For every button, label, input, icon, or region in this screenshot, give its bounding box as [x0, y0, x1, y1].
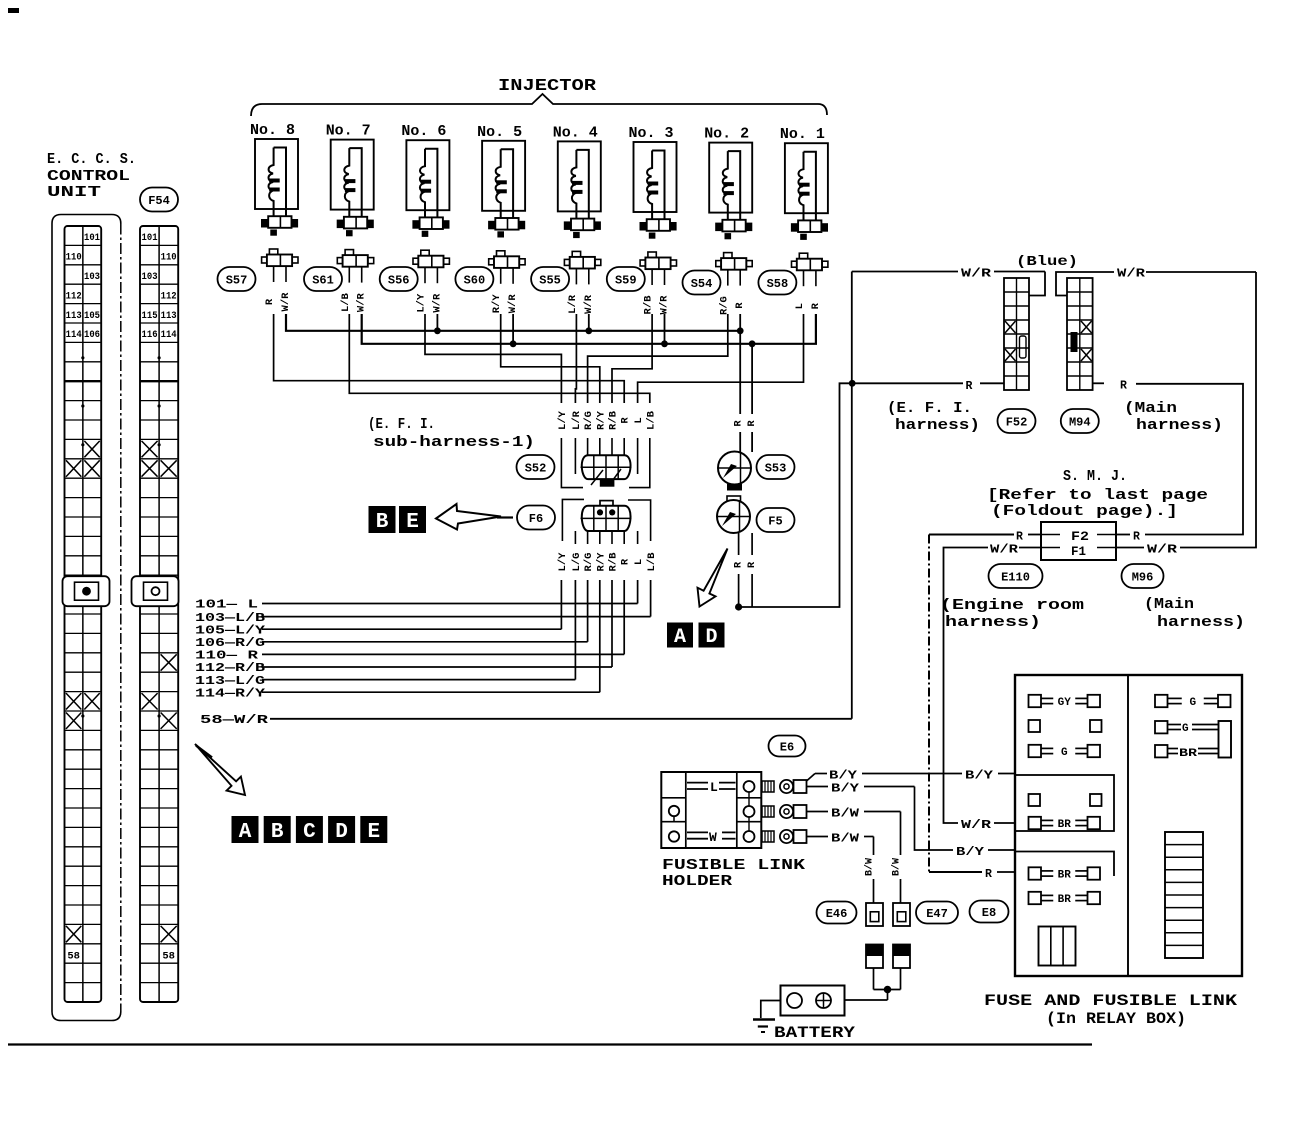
- svg-text:114: 114: [66, 330, 82, 341]
- injector No. 6: [401, 123, 449, 312]
- injector No. 6 harness connector: [412, 220, 419, 229]
- svg-text:E6: E6: [780, 740, 794, 754]
- fuse GY: [1029, 695, 1101, 709]
- svg-text:R: R: [746, 561, 758, 568]
- wire L/Y from injector No.6 to sub-harness bundle: [425, 314, 561, 403]
- wire B/Y (second): [807, 786, 829, 788]
- svg-text:W/R: W/R: [583, 294, 595, 314]
- connector S52 (E.F.I. sub-harness-1): [581, 455, 632, 486]
- svg-text:116: 116: [142, 330, 158, 341]
- svg-text:L/Y: L/Y: [557, 552, 569, 572]
- wire wrap F6 left: [562, 499, 584, 541]
- svg-text:58: 58: [162, 950, 175, 962]
- wire out of F6: [599, 531, 601, 544]
- svg-text:W/R: W/R: [356, 292, 368, 312]
- inner box 2 bracket: [1015, 852, 1114, 877]
- terminal stub row y=786.5: [762, 781, 774, 792]
- wire L/Y wrap around S52: [561, 438, 583, 488]
- svg-text:L/R: L/R: [571, 410, 583, 430]
- connector label oval S61: [304, 267, 342, 291]
- svg-text:R: R: [1120, 380, 1127, 393]
- ECU outline box: [52, 215, 121, 1021]
- svg-text:F2: F2: [1071, 530, 1089, 544]
- svg-text:58: 58: [67, 950, 80, 962]
- arrow from ECU: [195, 744, 245, 795]
- svg-text:S56: S56: [388, 273, 410, 287]
- svg-text:L: L: [633, 559, 645, 565]
- wire into S52 left end: [574, 438, 576, 474]
- svg-text:B/Y: B/Y: [956, 846, 984, 859]
- svg-text:101: 101: [142, 233, 158, 244]
- connector F6: [581, 501, 632, 531]
- svg-text:58—W/R: 58—W/R: [200, 714, 268, 727]
- wire R SMJ left to fuse box: [1028, 534, 1041, 536]
- fuse BR to busbar: [1155, 745, 1219, 760]
- injector No. 5: [477, 124, 525, 313]
- wire R to junction: [738, 574, 740, 607]
- svg-text:B/Y: B/Y: [829, 770, 857, 783]
- injector No. 4 sub-harness connector S: [572, 251, 580, 257]
- wire L/B wrap around S52: [629, 438, 650, 488]
- svg-text:113: 113: [66, 311, 82, 322]
- svg-text:105: 105: [84, 311, 100, 322]
- fuse BR: [1029, 892, 1101, 906]
- injector No. 6 sub-harness connector S: [421, 250, 429, 256]
- fuse G to busbar: [1155, 721, 1219, 735]
- svg-text:B/W: B/W: [831, 808, 859, 821]
- relay: [1039, 927, 1076, 966]
- svg-text:R/Y: R/Y: [491, 294, 503, 314]
- svg-text:113: 113: [161, 311, 177, 322]
- injector No. 7 harness connector: [337, 220, 344, 229]
- svg-text:105—L/Y: 105—L/Y: [195, 624, 265, 637]
- svg-text:S. M. J.: S. M. J.: [1063, 468, 1127, 485]
- svg-text:S61: S61: [312, 273, 334, 287]
- svg-text:115: 115: [142, 311, 158, 322]
- connector label oval M94: [1061, 409, 1099, 433]
- wire to battery junction: [873, 968, 875, 990]
- view marker E: [360, 816, 387, 844]
- svg-text:BR: BR: [1058, 894, 1072, 906]
- svg-text:S57: S57: [226, 273, 248, 287]
- svg-text:110— R: 110— R: [195, 650, 258, 663]
- fuse G (right): [1155, 695, 1231, 709]
- wire W/R injector 5 to bus: [512, 314, 514, 344]
- svg-text:L/Y: L/Y: [416, 293, 428, 313]
- svg-text:B: B: [376, 511, 389, 534]
- svg-text:E110: E110: [1001, 570, 1030, 584]
- injector group bracket: [251, 94, 827, 116]
- wire B/Y (top) to fuse box: [807, 774, 816, 782]
- svg-text:R: R: [985, 868, 992, 881]
- svg-text:L/B: L/B: [645, 410, 657, 430]
- svg-text:B/W: B/W: [891, 858, 903, 876]
- svg-text:(In RELAY BOX): (In RELAY BOX): [1046, 1010, 1186, 1028]
- wire R/G from injector No.2 to sub-harness bundle: [588, 314, 728, 403]
- injector No. 4: [553, 124, 601, 313]
- wire W/R pin58 riser: [851, 272, 853, 719]
- svg-text:F5: F5: [768, 514, 782, 528]
- svg-text:BR: BR: [1179, 748, 1198, 760]
- fuse and fusible link box (relay box): [1015, 675, 1242, 976]
- svg-text:A: A: [674, 626, 686, 649]
- svg-text:G: G: [1061, 747, 1068, 759]
- svg-text:harness): harness): [945, 614, 1041, 631]
- wire ECU pin 113 (L/G): [574, 580, 576, 680]
- svg-text:INJECTOR: INJECTOR: [498, 77, 597, 96]
- fusible link E47: [893, 903, 910, 926]
- svg-text:110: 110: [66, 253, 82, 264]
- svg-text:UNIT: UNIT: [47, 184, 101, 201]
- connector label oval S54: [683, 271, 721, 295]
- wire W/R to M94: [1056, 272, 1114, 296]
- svg-text:(Main: (Main: [1144, 596, 1194, 613]
- wire ECU pin 110 (R): [623, 580, 625, 654]
- svg-text:106: 106: [84, 330, 100, 341]
- svg-text:112: 112: [66, 291, 82, 302]
- wire W/R to F52: [852, 271, 958, 273]
- svg-text:No. 8: No. 8: [250, 122, 295, 139]
- svg-text:FUSIBLE LINK: FUSIBLE LINK: [662, 857, 805, 874]
- wire W/R injector 3 to bus: [664, 314, 666, 344]
- svg-text:E. C. C. S.: E. C. C. S.: [47, 151, 136, 168]
- svg-text:R: R: [966, 380, 973, 393]
- relay box divider: [1127, 675, 1129, 976]
- junction: [510, 340, 517, 347]
- svg-text:R/G: R/G: [583, 411, 595, 430]
- injector No. 8 sub-harness connector S: [269, 249, 277, 255]
- wire into S52: [587, 438, 589, 457]
- injector No. 8: [250, 122, 298, 311]
- svg-text:BR: BR: [1058, 819, 1072, 831]
- wire R/B from injector No.3 to sub-harness bundle: [612, 314, 652, 403]
- svg-text:B/Y: B/Y: [965, 770, 993, 783]
- svg-text:(Engine room: (Engine room: [940, 597, 1084, 614]
- wire ECU pin 112 (R/B): [611, 580, 613, 667]
- svg-text:S60: S60: [464, 273, 486, 287]
- svg-text:103: 103: [84, 272, 100, 283]
- svg-text:W/R: W/R: [507, 294, 519, 314]
- wire ECU pin 101 (L): [637, 580, 639, 604]
- wire L/R from injector No.4 to sub-harness bundle: [575, 314, 576, 403]
- connector label oval E46: [817, 902, 857, 924]
- svg-text:harness): harness): [895, 418, 980, 434]
- svg-text:(Foldout page).]: (Foldout page).]: [991, 503, 1178, 520]
- svg-text:R: R: [734, 302, 746, 309]
- connector label oval S59: [607, 267, 645, 291]
- svg-text:113—L/G: 113—L/G: [195, 675, 265, 688]
- wire ECU pin 103 (L/B): [650, 580, 652, 617]
- svg-text:L/B: L/B: [340, 292, 352, 312]
- connector S.M.J. F2/F1: [1041, 522, 1116, 560]
- svg-text:E46: E46: [826, 907, 848, 921]
- svg-text:R/Y: R/Y: [595, 410, 607, 430]
- svg-text:110: 110: [161, 253, 177, 264]
- spare terminal: [1029, 794, 1041, 806]
- svg-text:M96: M96: [1132, 570, 1154, 584]
- svg-text:W/R: W/R: [431, 293, 443, 313]
- fusible link holder: [661, 772, 761, 848]
- connector label oval S56: [380, 267, 418, 291]
- svg-text:L: L: [794, 303, 806, 309]
- svg-text:No. 6: No. 6: [401, 123, 446, 140]
- connector below E46: [866, 945, 883, 957]
- svg-text:(Blue): (Blue): [1016, 254, 1078, 270]
- svg-text:W/R: W/R: [659, 295, 671, 315]
- svg-text:W/R: W/R: [1147, 544, 1177, 557]
- svg-text:E: E: [406, 511, 419, 534]
- svg-text:No. 4: No. 4: [553, 124, 598, 141]
- ECU connector strip (right, F54): [132, 226, 179, 1002]
- junction R: [735, 603, 742, 610]
- wire ECU pin 106 (R/G): [587, 580, 589, 642]
- svg-text:R/G: R/G: [583, 553, 595, 572]
- wire R from bus to S53 (right pin): [751, 344, 753, 414]
- wire into S52 right end: [637, 438, 639, 474]
- svg-text:G: G: [1189, 697, 1196, 709]
- connector label oval S58: [758, 271, 796, 295]
- svg-text:L: L: [710, 780, 718, 795]
- connector label oval M96: [1122, 564, 1164, 588]
- svg-text:S58: S58: [767, 277, 789, 291]
- wire W/R SMJ left to fuse box: [1019, 547, 1041, 549]
- svg-text:W/R: W/R: [961, 268, 991, 281]
- wire R supply bus (injectors 7,5,3,1): [362, 314, 816, 344]
- view marker D: [699, 623, 725, 650]
- wire R below F5: [751, 533, 753, 555]
- spare terminal: [1090, 794, 1102, 806]
- svg-text:R/B: R/B: [608, 410, 620, 430]
- svg-text:sub-harness-1): sub-harness-1): [373, 435, 535, 451]
- svg-text:E: E: [367, 821, 380, 844]
- wire into S52: [599, 438, 601, 457]
- svg-text:M94: M94: [1069, 415, 1091, 429]
- wire out of F6: [623, 531, 625, 544]
- svg-text:No. 5: No. 5: [477, 124, 522, 141]
- connector F52 (blue): [1004, 278, 1029, 390]
- svg-text:L/R: L/R: [567, 294, 579, 314]
- wire ECU pin 105 (L/Y): [560, 580, 562, 629]
- svg-text:L/G: L/G: [571, 553, 583, 572]
- connector label oval E47: [916, 902, 958, 924]
- wire W/R injector 4 to bus: [588, 314, 590, 331]
- arrow near F5: [698, 549, 728, 607]
- svg-text:114: 114: [161, 330, 177, 341]
- connector label oval S52: [517, 455, 555, 479]
- svg-text:W: W: [709, 830, 717, 845]
- svg-text:R: R: [620, 417, 632, 424]
- svg-text:103—L/B: 103—L/B: [195, 612, 265, 625]
- junction: [661, 340, 668, 347]
- injector No. 5 sub-harness connector S: [497, 251, 505, 257]
- injector No. 3: [629, 125, 677, 314]
- connector label oval F52: [998, 409, 1036, 433]
- injector No. 3 sub-harness connector S: [648, 252, 656, 258]
- svg-text:R: R: [810, 302, 822, 309]
- svg-text:B/W: B/W: [864, 858, 876, 876]
- junction: [585, 327, 592, 334]
- bottom separator line: [8, 1043, 1092, 1045]
- svg-text:A: A: [239, 821, 252, 844]
- spare terminal: [1090, 720, 1102, 732]
- connector label oval F54: [140, 188, 178, 212]
- wire wrap F6 right: [628, 500, 651, 541]
- svg-text:106—R/G: 106—R/G: [195, 637, 265, 650]
- junction battery feed: [884, 986, 892, 994]
- injector No. 2: [704, 126, 752, 315]
- svg-text:E47: E47: [926, 907, 948, 921]
- wire R from bus to S53 (left pin): [739, 314, 741, 331]
- svg-text:GY: GY: [1058, 697, 1072, 709]
- svg-text:No. 1: No. 1: [780, 126, 825, 143]
- injector No. 7 sub-harness connector S: [345, 250, 353, 256]
- svg-text:F54: F54: [148, 194, 170, 208]
- svg-text:harness): harness): [1136, 418, 1223, 434]
- wire R below F5: [738, 533, 740, 555]
- wire R from injector No.8 to sub-harness bundle: [274, 314, 625, 403]
- svg-text:B/Y: B/Y: [831, 783, 859, 796]
- view marker D: [328, 816, 355, 844]
- svg-text:G: G: [1182, 723, 1189, 735]
- svg-text:E8: E8: [982, 906, 996, 920]
- svg-text:R: R: [264, 298, 276, 305]
- svg-text:(Main: (Main: [1124, 401, 1177, 417]
- svg-text:W/R: W/R: [1117, 268, 1145, 281]
- svg-text:L/Y: L/Y: [557, 410, 569, 430]
- wire W/R supply bus (injectors 8,6,4,2): [286, 314, 740, 331]
- view marker B: [369, 506, 396, 534]
- wire W/R right riser to SMJ: [1180, 272, 1256, 548]
- svg-text:S54: S54: [691, 277, 713, 291]
- wire W/R injector 6 to bus: [436, 314, 438, 331]
- svg-text:L: L: [633, 417, 645, 423]
- busbar: [1219, 721, 1232, 758]
- svg-text:112: 112: [161, 291, 177, 302]
- injector No. 8 harness connector: [261, 219, 268, 228]
- wire out of F6: [637, 531, 639, 544]
- connector label oval F6: [517, 506, 555, 530]
- wire L/B from injector No.7 to sub-harness bundle: [349, 314, 650, 403]
- view marker E: [399, 506, 426, 534]
- view marker A: [232, 816, 259, 844]
- svg-text:B: B: [271, 821, 284, 844]
- svg-text:F6: F6: [529, 512, 543, 526]
- injector No. 4 harness connector: [564, 221, 571, 230]
- injector No. 2 sub-harness connector S: [724, 253, 732, 259]
- svg-text:BATTERY: BATTERY: [774, 1024, 856, 1042]
- connector label oval S55: [531, 267, 569, 291]
- view marker B: [264, 816, 291, 844]
- wire out of F6: [611, 531, 613, 544]
- wire out of F6: [587, 531, 589, 544]
- wire ECU pin 114 (R/Y): [599, 580, 601, 692]
- svg-text:B/W: B/W: [831, 833, 859, 846]
- svg-text:S52: S52: [525, 461, 547, 475]
- connector label oval E6: [769, 736, 806, 757]
- svg-text:101— L: 101— L: [195, 599, 258, 612]
- junction W/R-R cross: [849, 380, 856, 387]
- connector label oval E8: [970, 901, 1009, 923]
- connector label oval F5: [757, 508, 795, 532]
- svg-text:D: D: [335, 821, 348, 844]
- fuse BR (W/R feed): [1029, 817, 1101, 831]
- connector label oval S53: [757, 455, 795, 479]
- junction No.2 R: [737, 327, 744, 334]
- ECU connector strip (left): [63, 226, 110, 1002]
- terminal stub row y=811.5: [762, 806, 774, 817]
- injector No. 3 harness connector: [640, 222, 647, 231]
- wire B/W (row2): [807, 811, 829, 813]
- view marker C: [296, 816, 323, 844]
- arrow to F6: [436, 504, 501, 530]
- svg-text:No. 7: No. 7: [326, 123, 371, 140]
- svg-text:W/R: W/R: [280, 292, 292, 312]
- svg-text:FUSE AND FUSIBLE LINK: FUSE AND FUSIBLE LINK: [984, 992, 1238, 1010]
- connector below E47: [893, 945, 910, 957]
- view marker A: [667, 623, 693, 650]
- connector F5: [717, 496, 750, 533]
- junction to S53: [749, 340, 756, 347]
- wire R into S53: [739, 432, 741, 452]
- svg-text:R/Y: R/Y: [595, 552, 607, 572]
- fuse G: [1029, 745, 1101, 759]
- fusible link bank: [1165, 832, 1203, 958]
- wire out of F6: [574, 531, 576, 544]
- svg-text:C: C: [303, 821, 316, 844]
- connector label oval S57: [218, 267, 256, 291]
- wire R into S53: [751, 432, 753, 452]
- svg-text:F52: F52: [1006, 415, 1028, 429]
- svg-text:No. 2: No. 2: [704, 126, 749, 143]
- wire into S52: [611, 438, 613, 457]
- svg-text:R: R: [746, 420, 758, 427]
- svg-text:R: R: [1133, 531, 1140, 544]
- svg-text:F1: F1: [1071, 545, 1086, 559]
- svg-text:L/B: L/B: [646, 552, 658, 572]
- svg-text:CONTROL: CONTROL: [47, 168, 130, 185]
- svg-text:(E. F. I.: (E. F. I.: [368, 417, 435, 433]
- injector No. 1 harness connector: [791, 223, 798, 232]
- svg-text:R/B: R/B: [643, 295, 655, 315]
- svg-text:D: D: [705, 626, 717, 649]
- svg-text:103: 103: [142, 272, 158, 283]
- connector S53: [718, 452, 751, 491]
- svg-text:R: R: [733, 561, 745, 568]
- spare terminal: [1029, 720, 1041, 732]
- wire into S52: [623, 438, 625, 457]
- injector No. 2 harness connector: [715, 223, 722, 232]
- injector No. 1: [780, 126, 828, 309]
- battery: [781, 986, 845, 1016]
- svg-text:S55: S55: [539, 273, 561, 287]
- ground symbol: [761, 1001, 781, 1019]
- fusible link E46: [866, 903, 883, 926]
- injector No. 7: [326, 123, 374, 312]
- svg-text:101: 101: [84, 233, 100, 244]
- junction: [434, 327, 441, 334]
- svg-text:R: R: [1016, 531, 1023, 544]
- connector M94 (blue): [1067, 278, 1093, 390]
- connector label oval S60: [455, 267, 493, 291]
- svg-text:114—R/Y: 114—R/Y: [195, 687, 265, 700]
- svg-text:R/B: R/B: [608, 552, 620, 572]
- wire R junction to blue connector: [739, 383, 963, 607]
- svg-text:112—R/B: 112—R/B: [195, 662, 265, 675]
- fuse BR (R feed): [1029, 867, 1101, 881]
- terminal stub row y=836.5: [762, 831, 774, 842]
- svg-text:R: R: [733, 420, 745, 427]
- wire R/Y from injector No.5 to sub-harness bundle: [501, 314, 600, 403]
